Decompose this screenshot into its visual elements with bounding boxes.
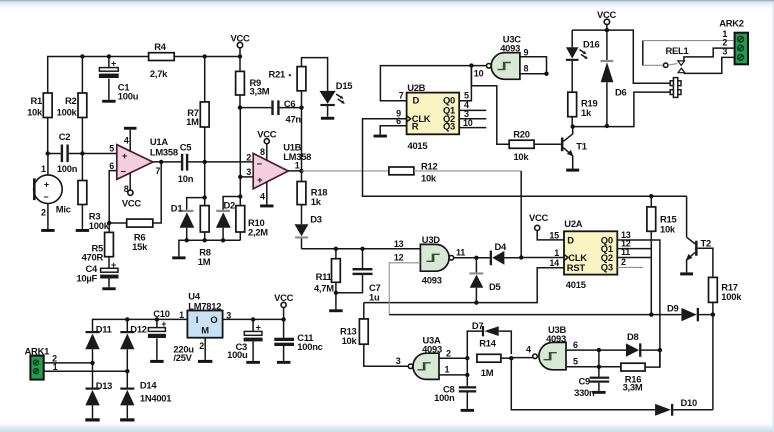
- svg-text:3: 3: [396, 356, 401, 366]
- svg-text:6: 6: [573, 340, 578, 350]
- svg-text:R: R: [412, 120, 419, 131]
- U2B CLK wedge: [407, 116, 411, 122]
- VCC symbol U1A pin8: [128, 190, 133, 195]
- svg-text:D6: D6: [615, 87, 627, 98]
- svg-text:I: I: [196, 314, 198, 325]
- svg-text:R2: R2: [65, 95, 77, 106]
- svg-text:1k: 1k: [311, 196, 322, 207]
- svg-text:C5: C5: [180, 142, 192, 153]
- capacitor C11: [283, 319, 285, 361]
- svg-text:330n: 330n: [574, 387, 595, 398]
- svg-text:LM7812: LM7812: [188, 300, 221, 311]
- svg-text:1: 1: [295, 160, 300, 170]
- NAND U3C 4093: [491, 53, 520, 80]
- wire U3B out to D10: [511, 358, 655, 410]
- NAND U3A 4093: [413, 353, 439, 379]
- resistor R19: [568, 92, 577, 117]
- U2B Q1 stub pin4: [459, 109, 486, 111]
- LED D16: [571, 30, 573, 47]
- VCC symbol U2A pin15: [535, 225, 540, 230]
- svg-text:100u: 100u: [227, 349, 248, 360]
- svg-text:4,7M: 4,7M: [314, 283, 334, 294]
- U1A pin8 wire: [129, 173, 131, 195]
- diode D12: [126, 319, 128, 331]
- ground T2 emitter: [680, 272, 693, 275]
- ground C9: [592, 391, 605, 394]
- svg-text:10µF: 10µF: [76, 273, 97, 284]
- capacitor C8: [459, 386, 476, 388]
- svg-text:T2: T2: [701, 237, 711, 248]
- wire U1B pin3 net: [240, 108, 253, 206]
- resistor R14: [477, 354, 501, 362]
- svg-text:−: −: [43, 192, 48, 202]
- diode D7: [467, 331, 511, 358]
- svg-text:D1: D1: [171, 203, 183, 214]
- IC U2B 4015 box: [407, 93, 460, 135]
- svg-text:/25V: /25V: [173, 352, 192, 363]
- ground C4: [102, 287, 115, 290]
- svg-text:4093: 4093: [500, 43, 520, 54]
- U3B pin6 input: [566, 349, 626, 351]
- ground C11: [277, 361, 290, 364]
- wire U1A feedback pin6: [109, 171, 127, 223]
- svg-text:VCC: VCC: [274, 292, 294, 303]
- ground U2B pin6: [374, 135, 387, 138]
- U2B Q3 stub pin10: [459, 127, 486, 129]
- wire R17/D9 node to D10: [712, 315, 714, 410]
- svg-text:C6: C6: [284, 98, 296, 109]
- resistor R15: [650, 196, 652, 207]
- svg-text:+: +: [161, 319, 166, 329]
- svg-text:2,7k: 2,7k: [150, 68, 168, 79]
- svg-text:Q3: Q3: [443, 120, 455, 131]
- diode D3: [295, 224, 309, 236]
- U3D pin12 wire: [389, 263, 420, 315]
- svg-text:1: 1: [445, 364, 450, 374]
- svg-text:4: 4: [124, 135, 129, 145]
- svg-text:10k: 10k: [27, 106, 43, 117]
- wire U3D output: [454, 257, 490, 259]
- svg-text:D3: D3: [310, 213, 322, 224]
- svg-text:5: 5: [109, 144, 114, 154]
- U2B pin9 CLK bracket: [363, 119, 687, 196]
- svg-text:3: 3: [722, 47, 727, 57]
- U2B pin7 D bracket from U3C out: [380, 66, 486, 101]
- svg-text:15: 15: [549, 230, 559, 240]
- transistor T2: [695, 241, 698, 256]
- U3C pin8 input: [520, 73, 547, 75]
- svg-text:D16: D16: [583, 38, 599, 49]
- node R7 top: [203, 54, 207, 58]
- wire VCC rail right: [572, 30, 670, 83]
- svg-text:Mic: Mic: [56, 204, 71, 215]
- diode D9: [681, 308, 696, 321]
- svg-text:100k: 100k: [57, 106, 78, 117]
- svg-text:9: 9: [524, 47, 529, 57]
- resistor R6: [127, 219, 153, 227]
- VCC symbol top right: [604, 19, 609, 24]
- svg-text:R14: R14: [479, 337, 496, 348]
- svg-text:C9: C9: [579, 376, 591, 387]
- wire T2 base to R17: [698, 248, 713, 277]
- node VCC/R9: [238, 54, 242, 58]
- regulator U4 LM7812: [187, 311, 222, 338]
- LED D15: [320, 91, 336, 104]
- resistor R12: [389, 167, 414, 175]
- U2A Q2 pin11 stub: [617, 257, 651, 259]
- resistor R20: [509, 140, 534, 148]
- svg-text:1M: 1M: [186, 116, 199, 127]
- svg-text:7: 7: [155, 166, 160, 176]
- capacitor C5: [181, 154, 183, 171]
- resistor R21: [297, 67, 306, 91]
- wire relay NO contact to ARK2 pin2: [684, 48, 735, 61]
- svg-text:VCC: VCC: [257, 129, 277, 140]
- svg-text:C10: C10: [153, 308, 169, 319]
- svg-text:1: 1: [179, 310, 184, 320]
- ground above U1A pin4: [124, 127, 137, 130]
- svg-text:D8: D8: [627, 331, 639, 342]
- resistor R8: [204, 162, 206, 206]
- ground R3: [76, 229, 89, 232]
- VCC symbol U1B pin8: [264, 139, 269, 144]
- diode D2: [223, 197, 240, 241]
- svg-text:4093: 4093: [546, 333, 566, 344]
- svg-text:R11: R11: [316, 271, 332, 282]
- svg-text:1: 1: [554, 248, 559, 258]
- U3C pin9 input: [520, 57, 547, 74]
- svg-text:+: +: [257, 174, 263, 185]
- svg-text:8: 8: [260, 147, 265, 157]
- svg-text:2: 2: [41, 208, 46, 218]
- resistor R1: [43, 93, 52, 118]
- wire R12 to U2A CLK riser: [414, 170, 521, 172]
- svg-text:+: +: [256, 323, 261, 333]
- node R15 top: [649, 194, 653, 198]
- svg-text:RST: RST: [567, 262, 586, 273]
- wire top bias rail: [48, 57, 240, 94]
- svg-text:R1: R1: [31, 95, 43, 106]
- svg-text:10k: 10k: [513, 151, 529, 162]
- svg-text:VCC: VCC: [597, 9, 617, 20]
- svg-text:D15: D15: [336, 80, 352, 91]
- diode D10: [655, 404, 671, 416]
- capacitor C4: [101, 268, 118, 272]
- capacitor C9: [590, 377, 610, 379]
- ground D14: [120, 418, 134, 421]
- svg-text:100nc: 100nc: [297, 341, 322, 352]
- svg-text:Q3: Q3: [601, 262, 613, 273]
- U1A pin4 wire: [129, 130, 131, 152]
- svg-text:D14: D14: [140, 380, 157, 391]
- svg-text:R21: R21: [269, 69, 285, 80]
- svg-text:D9: D9: [667, 302, 679, 313]
- relay coil connector symbol: [673, 78, 677, 98]
- wire relay NC contact to ARK2 pin3: [684, 57, 734, 73]
- ground mic: [41, 229, 54, 232]
- svg-text:2: 2: [246, 153, 251, 163]
- resistor R9: [239, 57, 241, 72]
- op-amp U1A: [117, 145, 153, 180]
- svg-text:6: 6: [396, 116, 401, 126]
- svg-text:4015: 4015: [408, 140, 428, 151]
- svg-text:+: +: [44, 180, 49, 190]
- wire mic line: [48, 153, 117, 155]
- NAND U3D 4093: [420, 244, 449, 271]
- svg-text:100n: 100n: [57, 163, 78, 174]
- right page edge tint: [773, 2, 774, 432]
- node R2 top: [80, 54, 84, 58]
- svg-text:4015: 4015: [566, 279, 586, 290]
- resistor R2: [81, 57, 83, 94]
- svg-text:−: −: [120, 165, 126, 176]
- resistor R7: [204, 57, 206, 102]
- svg-text:47n: 47n: [286, 113, 302, 124]
- svg-text:U1A: U1A: [150, 136, 168, 147]
- U2B Q0 stub pin5: [459, 66, 471, 101]
- resistor R5: [108, 223, 110, 232]
- op-amp U1B: [253, 153, 288, 188]
- U2A CLK wedge: [564, 254, 568, 260]
- VCC symbol top-left: [237, 42, 242, 47]
- diode D5: [475, 258, 477, 303]
- svg-text:O: O: [210, 314, 217, 325]
- svg-text:D10: D10: [681, 397, 697, 408]
- IC U2A 4015 box: [564, 231, 617, 274]
- ground C3: [246, 361, 260, 364]
- U4 pin2 ground: [204, 338, 206, 360]
- svg-text:3: 3: [246, 167, 251, 177]
- U2B pin6 R to ground: [380, 126, 406, 135]
- wire U2A CLK pin1: [521, 257, 564, 259]
- svg-text:11: 11: [456, 248, 465, 258]
- svg-text:D7: D7: [472, 320, 484, 331]
- svg-text:U2A: U2A: [564, 218, 582, 229]
- svg-text:ARK2: ARK2: [719, 18, 744, 29]
- svg-text:10k: 10k: [660, 223, 676, 234]
- svg-text:+: +: [122, 150, 128, 161]
- wire U2A RST pin14 bracket: [364, 268, 564, 303]
- svg-text:4093: 4093: [422, 344, 442, 355]
- capacitor C1: [108, 57, 110, 100]
- svg-text:T1: T1: [576, 140, 586, 151]
- wire DC rail bottom: [93, 319, 284, 331]
- U3B pin5 input: [566, 350, 621, 377]
- svg-text:100u: 100u: [118, 91, 139, 102]
- diode D8: [626, 343, 639, 356]
- resistor R16: [621, 363, 645, 371]
- svg-text:VCC: VCC: [529, 212, 549, 223]
- U3A pin1 input: [439, 358, 467, 386]
- svg-text:U2B: U2B: [407, 82, 425, 93]
- ground T1 emitter: [566, 169, 579, 172]
- wire U1B output node: [288, 108, 301, 182]
- svg-text:6: 6: [109, 161, 114, 171]
- diode D13: [86, 388, 100, 390]
- diode D1: [187, 198, 205, 241]
- svg-text:100n: 100n: [434, 392, 455, 403]
- svg-text:1u: 1u: [369, 291, 380, 302]
- svg-text:1: 1: [41, 164, 46, 174]
- resistor R3: [81, 154, 83, 181]
- svg-text:5: 5: [464, 91, 469, 101]
- svg-text:M: M: [201, 325, 209, 336]
- svg-text:10: 10: [474, 68, 484, 78]
- wire C5 to U1B pin2: [188, 161, 253, 163]
- ground U1B pin4: [260, 205, 273, 208]
- connector ARK1: [30, 356, 43, 380]
- resistor R4: [149, 53, 175, 61]
- svg-text:+: +: [111, 59, 116, 69]
- svg-text:2: 2: [446, 348, 451, 358]
- wire D3 to U3D pin13: [302, 248, 421, 250]
- svg-text:3,3M: 3,3M: [623, 381, 643, 392]
- svg-text:10n: 10n: [178, 173, 194, 184]
- svg-text:4: 4: [260, 192, 265, 202]
- diode D14: [120, 388, 134, 390]
- capacitor C2: [61, 145, 63, 163]
- diode D6: [606, 30, 608, 126]
- resistor R10: [236, 206, 245, 232]
- svg-text:5: 5: [573, 357, 578, 367]
- U3A pin2 input: [439, 357, 467, 359]
- U2A Q0 pin13 riser: [617, 240, 660, 367]
- ground bus bar: [172, 256, 185, 259]
- svg-text:15k: 15k: [132, 241, 148, 252]
- wire relay common to ARK2 pin1: [642, 41, 644, 66]
- svg-text:4: 4: [526, 345, 531, 355]
- VCC symbol bottom: [281, 302, 286, 307]
- svg-text:3: 3: [226, 310, 231, 320]
- svg-text:100k: 100k: [721, 291, 742, 302]
- svg-text:REL1: REL1: [666, 45, 689, 56]
- capacitor C6: [271, 100, 273, 115]
- svg-text:D: D: [567, 234, 574, 245]
- capacitor C7: [336, 249, 363, 293]
- svg-text:D12: D12: [130, 323, 146, 334]
- svg-text:D11: D11: [96, 323, 112, 334]
- svg-text:D2: D2: [224, 200, 236, 211]
- wire T1 collector line to relay coil: [572, 92, 670, 127]
- wire U1A output: [153, 161, 181, 163]
- svg-text:10k: 10k: [342, 335, 358, 346]
- NAND U3B 4093: [539, 342, 566, 369]
- svg-text:1M: 1M: [198, 256, 211, 267]
- svg-text:3,3M: 3,3M: [250, 85, 270, 96]
- ground D15: [321, 117, 334, 120]
- svg-text:10k: 10k: [421, 173, 437, 184]
- svg-text:470R: 470R: [82, 251, 104, 262]
- node C6/R21: [299, 105, 303, 109]
- ground D13: [85, 418, 99, 421]
- wire ground bus D1/R8/D2/R10: [179, 240, 240, 256]
- capacitor C10: [156, 319, 158, 360]
- wire VCC to U2A D pin15: [537, 231, 564, 240]
- connector ARK2: [735, 33, 748, 65]
- wire ARK1 pin1: [44, 370, 128, 372]
- svg-text:7: 7: [399, 90, 404, 100]
- svg-text:ARK1: ARK1: [25, 345, 50, 356]
- wire U1B out to R12: [302, 170, 389, 172]
- resistor R13: [363, 303, 365, 319]
- diode D4: [490, 251, 492, 266]
- svg-text:12: 12: [394, 252, 404, 262]
- transistor T1: [561, 138, 564, 152]
- svg-text:100k: 100k: [89, 220, 110, 231]
- svg-text:D4: D4: [495, 241, 508, 252]
- microphone Mic: [47, 154, 49, 175]
- svg-text:13: 13: [394, 239, 404, 249]
- svg-text:1k: 1k: [581, 107, 592, 118]
- resistor R17: [709, 277, 718, 302]
- wire U3C out to R20: [471, 66, 509, 145]
- wire D9 line (Q0 net): [389, 314, 681, 316]
- svg-text:R4: R4: [154, 41, 167, 52]
- wire ARK1 pin2: [44, 362, 93, 364]
- svg-text:VCC: VCC: [230, 32, 250, 43]
- svg-text:1N4001: 1N4001: [140, 393, 171, 404]
- svg-text:4093: 4093: [422, 275, 442, 286]
- diode D11: [86, 331, 100, 333]
- ground R11/C7: [329, 309, 342, 312]
- svg-text:U3D: U3D: [422, 234, 440, 245]
- wire R9 to C6: [240, 107, 271, 109]
- resistor R11: [335, 249, 337, 259]
- svg-text:2: 2: [621, 257, 626, 267]
- ground C10: [150, 360, 163, 363]
- svg-text:8: 8: [524, 64, 529, 74]
- svg-text:VCC: VCC: [122, 197, 142, 208]
- svg-text:LM358: LM358: [150, 146, 178, 157]
- svg-text:D13: D13: [96, 380, 112, 391]
- svg-text:11: 11: [621, 247, 630, 257]
- U1B pin8 wire: [266, 144, 268, 161]
- node C1 top: [107, 54, 111, 58]
- svg-text:−: −: [257, 158, 263, 169]
- svg-text:C2: C2: [59, 131, 71, 142]
- ground C8: [461, 409, 474, 412]
- wire R14 to U3B output: [511, 357, 532, 359]
- ground C1: [102, 100, 115, 103]
- U2A Q3 pin2 stub: [617, 266, 643, 268]
- svg-text:R12: R12: [421, 160, 437, 171]
- svg-text:1M: 1M: [481, 367, 494, 378]
- svg-text:D: D: [413, 95, 420, 106]
- svg-text:D5: D5: [489, 281, 501, 292]
- U1B pin4 wire: [266, 182, 268, 205]
- svg-text:2: 2: [199, 341, 204, 351]
- resistor R18: [297, 182, 306, 205]
- U2B Q2 stub pin3: [459, 118, 486, 120]
- svg-text:10: 10: [463, 118, 473, 128]
- wire CLK line to T2 collector: [686, 196, 688, 237]
- svg-text:+: +: [111, 260, 116, 270]
- svg-text:14: 14: [549, 258, 559, 268]
- capacitor C3: [252, 319, 254, 361]
- svg-text:2,2M: 2,2M: [248, 227, 268, 238]
- svg-text:R20: R20: [513, 129, 529, 140]
